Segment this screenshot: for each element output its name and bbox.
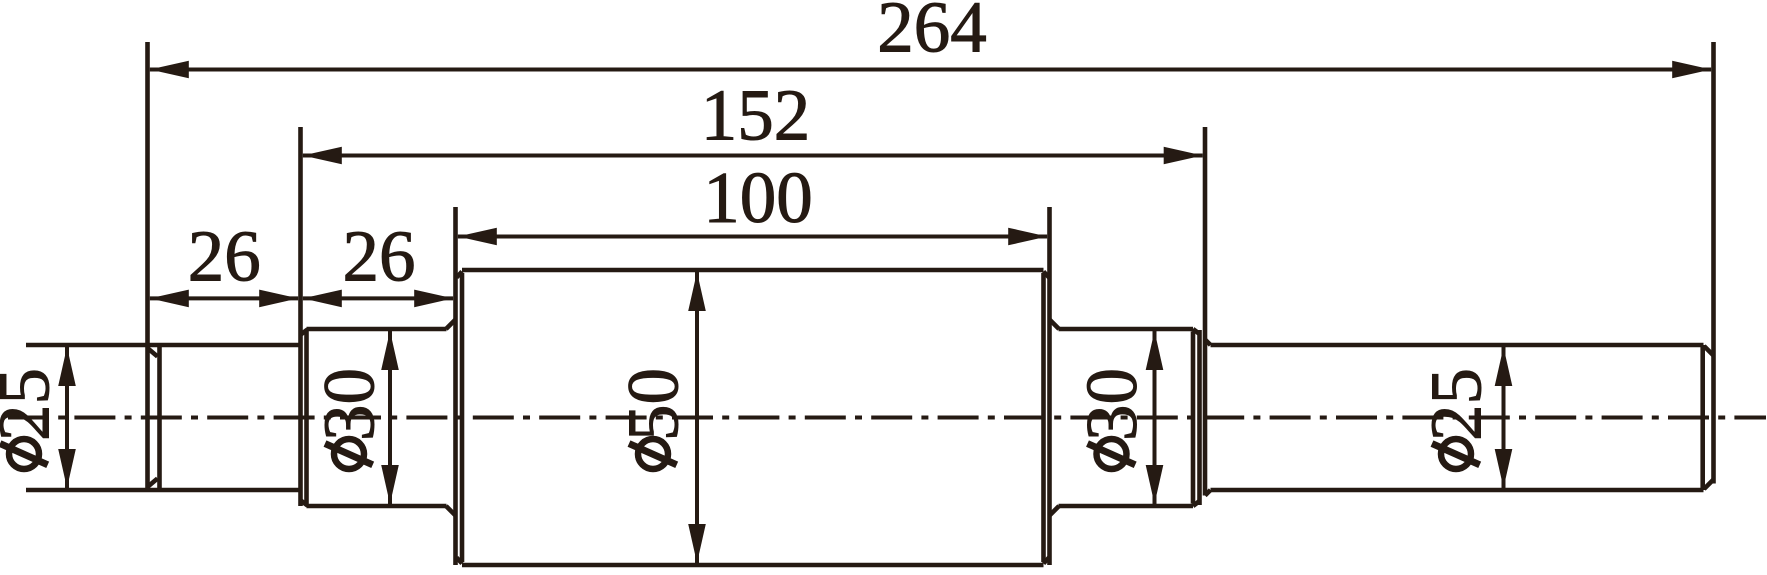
shoulder face φ25/φ30 left / extension line of dims 152 and 26 [298,127,303,506]
dimension φ30 left - label φ30 (rotated) [308,368,389,469]
dimension φ30 right - arrow line [1146,331,1164,504]
svg-text:100: 100 [703,157,813,238]
svg-text:264: 264 [877,0,987,68]
dimension 26 first - dimension line with arrowheads [150,290,298,308]
dimension φ25 left - label φ25 (rotated) [0,368,64,469]
dimension 152 - dimension line with arrowheads [303,147,1203,165]
shoulder face φ30/φ25 right [1197,330,1202,505]
chamfer line φ30 right section [1191,332,1196,504]
shaft left end face / extension line of dims 264 and 26 [145,42,150,490]
shaft right end chamfer line [1703,345,1714,490]
shaft section φ25 left - top edge (with extension to φ25 dim) [26,343,301,348]
svg-text:25: 25 [1415,368,1496,441]
shoulder face φ30/φ50 left / extension line of dim 100 left [453,207,458,565]
dimension φ25 right - label φ25 (rotated) [1415,368,1496,469]
chamfer line φ50 right edge [1044,272,1050,564]
svg-text:152: 152 [701,75,811,156]
svg-text:26: 26 [343,216,416,297]
shaft section φ25 right - bottom edge [1211,488,1704,493]
chamfer line φ25 right section left end / extension line of dim 152 right [1205,127,1211,496]
dimension φ50 - label φ50 (rotated) [612,368,693,469]
centerline (axis, dash-dot) [8,416,1766,420]
svg-text:30: 30 [1071,368,1152,441]
svg-text:26: 26 [188,216,261,297]
chamfer line φ50 left edge [457,272,463,564]
shaft section φ25 right - top edge [1211,343,1704,348]
dimension 26 second - dimension line with arrowheads [303,290,453,308]
svg-text:30: 30 [308,368,389,441]
dimension 26 first - value text [188,216,261,297]
dimension φ25 right - arrow line [1495,347,1513,488]
dimension φ25 left - arrow line [58,347,76,488]
shaft left end chamfer line [148,345,160,490]
shaft right end face / extension line of dim 264 right [1711,42,1716,484]
shaft section φ25 left - bottom edge (with extension to φ25 dim) [26,488,301,493]
shaft section φ30 left - top edge with chamfer corners [301,320,456,335]
shaft section φ30 right - top edge with chamfer corners [1050,320,1200,335]
dimension 100 - value text [703,157,813,238]
shaft section φ30 right - bottom edge with chamfer corners [1050,501,1200,516]
shaft section φ50 - top edge [462,268,1044,273]
shaft section φ30 left - bottom edge with chamfer corners [301,501,456,516]
svg-text:50: 50 [612,368,693,441]
shaft section φ50 - bottom edge [462,563,1044,568]
dimension φ30 left - arrow line [381,331,399,504]
dimension φ50 - arrow line [688,272,706,563]
dimension 264 - dimension line with arrowheads [150,61,1711,79]
shoulder face φ50/φ30 right / extension line of dim 100 right [1047,207,1052,565]
dimension 264 - value text [877,0,987,68]
dimension 26 second - value text [343,216,416,297]
dimension 100 - dimension line with arrowheads [458,228,1047,246]
dimension φ30 right - label φ30 (rotated) [1071,368,1152,469]
chamfer line φ30 left section [304,332,309,504]
dimension 152 - value text [701,75,811,156]
svg-text:25: 25 [0,368,64,441]
